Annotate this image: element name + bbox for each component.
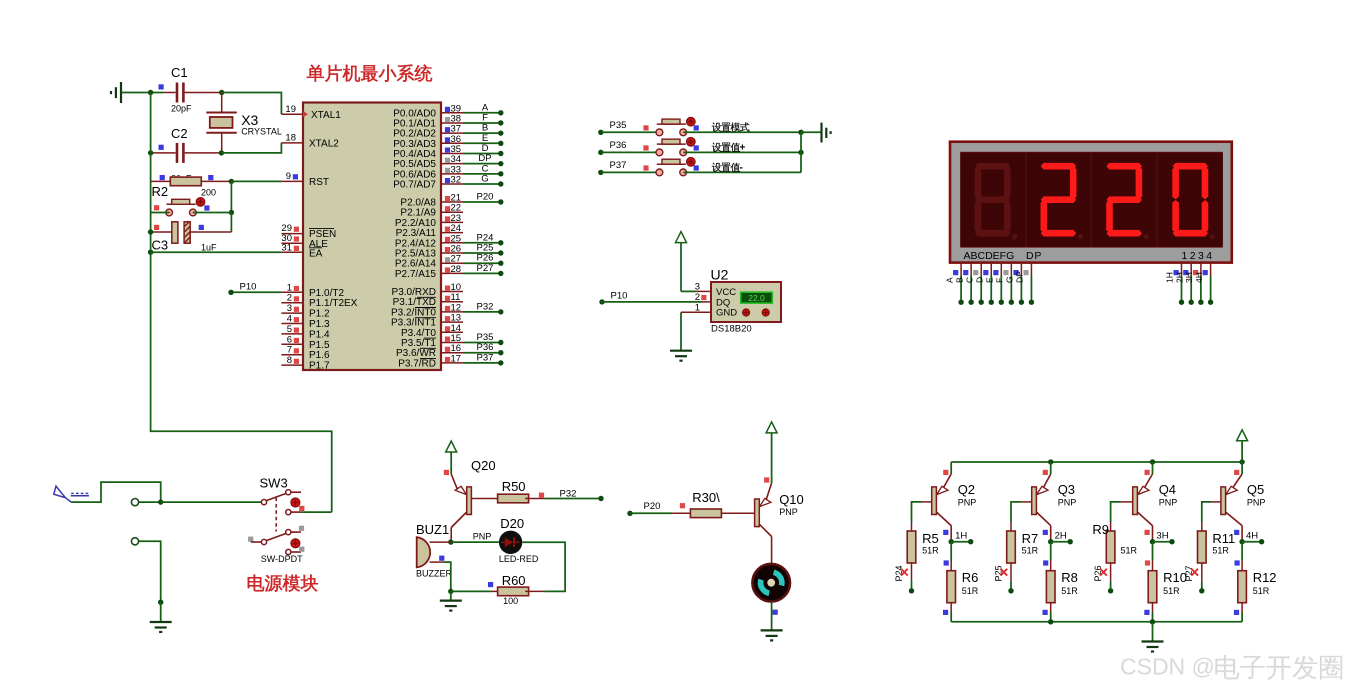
node 4H junction: [1241, 539, 1243, 542]
svg-text:U2: U2: [711, 267, 729, 283]
transistor Q5 PNP: [1241, 462, 1243, 474]
resistor R5 51R: [911, 522, 913, 531]
wire net P32: [463, 311, 501, 313]
push-button 设置值+: [657, 143, 686, 145]
pin 35 P0.4/AD4 net D: [441, 152, 463, 154]
wire R50 to P32: [544, 498, 601, 500]
svg-text:P32: P32: [560, 489, 577, 500]
node P10: [228, 290, 233, 295]
svg-text:28: 28: [451, 264, 462, 275]
svg-text:P1.3: P1.3: [309, 319, 330, 330]
svg-text:5: 5: [287, 324, 292, 335]
pin 27 P2.6/A14: [441, 262, 463, 264]
wire R7 to terminal P25: [1010, 581, 1012, 590]
svg-text:DP: DP: [1026, 250, 1042, 262]
svg-text:3H: 3H: [1156, 531, 1168, 542]
resistor R12 51R: [1241, 542, 1243, 561]
node ground junction: [158, 600, 163, 605]
svg-text:ABCDEFG: ABCDEFG: [964, 250, 1015, 262]
pin display segment DP: [1030, 263, 1032, 276]
wire C2 to XTAL2 pin18: [221, 143, 281, 153]
pin 28 P2.7/A15: [441, 272, 463, 274]
node bottom rail junction R10: [1150, 619, 1155, 624]
svg-text:XTAL2: XTAL2: [309, 139, 339, 150]
svg-text:VCC: VCC: [716, 287, 736, 298]
transistor Q4 PNP: [1152, 462, 1154, 474]
svg-text:1uF: 1uF: [201, 242, 217, 252]
node rail junction Q3: [1048, 459, 1053, 464]
wire net P25: [463, 252, 501, 254]
svg-text:P1.5: P1.5: [309, 340, 330, 351]
svg-text:C1: C1: [171, 65, 188, 80]
power arrow transistor array: [1237, 430, 1248, 441]
wire battery to terminal: [71, 482, 161, 502]
wire button to ground rail: [683, 171, 801, 173]
power arrow Q10: [766, 422, 777, 433]
svg-text:P37: P37: [477, 352, 494, 363]
svg-text:P1.0/T2: P1.0/T2: [309, 288, 344, 299]
node terminal P27: [1199, 588, 1204, 593]
label title 单片机最小系统: [307, 65, 324, 82]
pin 8 P1.7: [281, 364, 303, 366]
svg-text:P20: P20: [644, 501, 661, 512]
svg-text:E: E: [985, 277, 995, 283]
svg-text:Q5: Q5: [1247, 482, 1264, 497]
node terminal P26: [1108, 588, 1113, 593]
node C2 left junction: [148, 150, 153, 155]
wire P10 to DQ: [602, 301, 702, 303]
pin 18 XTAL2: [281, 142, 303, 144]
pin 6 P1.5: [281, 343, 303, 345]
svg-text:3H: 3H: [1184, 272, 1194, 283]
node P10 sensor terminal: [599, 299, 604, 304]
svg-text:G: G: [1005, 276, 1015, 283]
pin 11 P3.1/TXD: [441, 301, 463, 303]
svg-text:CRYSTAL: CRYSTAL: [241, 127, 282, 137]
pin 2 P1.1/T2EX: [281, 302, 303, 304]
svg-text:2H: 2H: [1055, 531, 1067, 542]
svg-text:20pF: 20pF: [171, 104, 192, 114]
pin 3 P1.2: [281, 312, 303, 314]
wire terminal2 to ground: [139, 541, 161, 604]
svg-text:9: 9: [286, 171, 291, 182]
wire base to R11: [1202, 502, 1212, 522]
svg-text:P32: P32: [477, 301, 494, 312]
pin 7 P1.6: [281, 354, 303, 356]
wire base to R5: [912, 502, 922, 522]
pin 23 P2.2/A10: [441, 221, 463, 223]
push-button 设置值-: [657, 163, 686, 165]
svg-text:P1.7: P1.7: [309, 361, 330, 372]
svg-text:22.0: 22.0: [748, 293, 765, 303]
pin 38 P0.1/AD1 net F: [441, 122, 463, 124]
pin 10 P3.0/RXD: [441, 291, 463, 293]
pin display digit 1H: [1181, 263, 1183, 276]
transistor Q10 PNP: [766, 483, 772, 502]
wire net P37: [463, 362, 501, 364]
node bottom rail junction R8: [1048, 619, 1053, 624]
transistor Q2 PNP: [950, 462, 952, 474]
node C1 left junction: [148, 90, 153, 95]
svg-text:R60: R60: [502, 573, 526, 588]
svg-text:BUZ1: BUZ1: [416, 522, 449, 537]
node buttons gnd junction 1: [798, 130, 803, 135]
svg-text:P1.1/T2EX: P1.1/T2EX: [309, 298, 358, 309]
svg-text:Q10: Q10: [779, 492, 804, 507]
svg-text:1: 1: [287, 282, 292, 293]
resistor R30: [672, 512, 690, 514]
svg-text:Q3: Q3: [1058, 482, 1075, 497]
wire GND to ground: [680, 312, 682, 350]
svg-text:RST: RST: [309, 177, 329, 188]
wire R11 to terminal P27: [1201, 581, 1203, 590]
pin 33 P0.6/AD6 net C: [441, 173, 463, 175]
svg-text:LED-RED: LED-RED: [499, 554, 539, 564]
pin display digit 3H: [1200, 263, 1202, 276]
wire net P27: [463, 272, 501, 274]
svg-text:8: 8: [287, 355, 292, 366]
svg-text:1: 1: [695, 302, 700, 313]
svg-text:-: -: [740, 163, 743, 174]
svg-text:P35: P35: [610, 120, 627, 131]
node buzzer ground junction: [448, 589, 453, 594]
battery DC source symbol: [54, 486, 66, 498]
resistor R60: [491, 590, 501, 592]
wire R2 to RST pin9: [231, 180, 281, 182]
svg-text:GND: GND: [716, 308, 737, 319]
wire rail to ground: [1152, 622, 1154, 642]
ground power module: [160, 621, 162, 623]
capacitor C1: [163, 92, 176, 94]
svg-text:C2: C2: [171, 126, 188, 141]
resistor R7 51R: [1010, 522, 1012, 531]
wire button to ground rail: [683, 131, 801, 133]
switch SW3 actuator 2: [291, 539, 300, 548]
svg-text:DQ: DQ: [716, 297, 730, 308]
ground U2: [680, 350, 682, 352]
svg-text:EA: EA: [309, 248, 323, 259]
push-button reset: [167, 203, 196, 205]
wire P20 to R30: [630, 512, 672, 514]
svg-text:PNP: PNP: [1159, 497, 1178, 507]
node RST junction: [229, 179, 234, 184]
pin 39 P0.0/AD0 net A: [441, 112, 463, 114]
svg-text:51R: 51R: [922, 546, 939, 556]
svg-text:A: A: [944, 277, 954, 283]
node 3H junction: [1152, 539, 1154, 542]
pin display segment F: [1010, 263, 1012, 276]
node SW3 feed junction: [158, 499, 163, 504]
wire P37 to button: [601, 171, 660, 173]
resistor R50: [471, 498, 501, 500]
pin 37 P0.2/AD2 net B: [441, 132, 463, 134]
svg-text:PNP: PNP: [958, 497, 977, 507]
node crystal-C2 junction: [219, 150, 224, 155]
wire 3H stub: [1153, 541, 1173, 543]
wire VCC: [681, 290, 696, 292]
digit 3 showing 2: [1107, 163, 1142, 170]
node P36 terminal: [598, 150, 603, 155]
pin 14 P3.4/T0: [441, 331, 463, 333]
svg-text:R7: R7: [1022, 531, 1039, 546]
node P35 terminal: [598, 130, 603, 135]
LED D20 LED-RED: [499, 531, 522, 554]
svg-text:2H: 2H: [1174, 272, 1184, 283]
svg-text:51R: 51R: [1061, 586, 1078, 596]
node 2H junction: [1050, 539, 1052, 542]
svg-text:51R: 51R: [1163, 586, 1180, 596]
ground (right-facing) buttons: [820, 123, 822, 143]
wire base to R7: [1011, 502, 1021, 522]
wire rail to EA pin31: [151, 251, 282, 253]
svg-text:4: 4: [287, 314, 292, 325]
wire 1H stub: [951, 541, 971, 543]
node P37 terminal: [598, 170, 603, 175]
wire net P26: [463, 262, 501, 264]
wire base to R9: [1111, 502, 1121, 522]
svg-text:P36: P36: [610, 140, 627, 151]
digit 1 (blank, dim segments): [975, 163, 1010, 170]
display 4-digit 7-segment module: [950, 142, 1232, 263]
wire R12 to bottom rail: [1241, 612, 1243, 622]
svg-text:51R: 51R: [1253, 586, 1270, 596]
wire R8 to bottom rail: [1050, 612, 1052, 622]
label 设置值-: [712, 163, 721, 172]
svg-text:6: 6: [287, 334, 292, 345]
svg-text:P20: P20: [477, 192, 494, 203]
svg-text:P0.7/AD7: P0.7/AD7: [393, 179, 436, 190]
node P32 terminal: [598, 496, 603, 501]
capacitor C2: [151, 152, 176, 154]
pin 34 P0.5/AD5 net DP: [441, 163, 463, 165]
svg-text:P27: P27: [477, 263, 494, 274]
svg-text:R11: R11: [1212, 531, 1235, 546]
wire R60 to ground node: [451, 590, 491, 592]
pin display segment D: [990, 263, 992, 276]
svg-text:P1.2: P1.2: [309, 309, 330, 320]
wire motor to ground: [771, 602, 773, 631]
svg-text:R9: R9: [1092, 522, 1109, 537]
wire buttons right rail: [800, 132, 802, 172]
svg-text:P10: P10: [240, 282, 257, 293]
wire collector bottom rail: [951, 621, 1242, 623]
resistor R2: [151, 180, 171, 182]
wire P35 to button: [601, 131, 660, 133]
svg-text:2: 2: [287, 293, 292, 304]
svg-text:7: 7: [287, 345, 292, 356]
svg-text:PNP: PNP: [1058, 497, 1077, 507]
pin 36 P0.3/AD3 net E: [441, 142, 463, 144]
pin display digit 2H: [1190, 263, 1192, 276]
node P20 terminal: [627, 511, 632, 516]
node C3 left junction: [148, 229, 153, 234]
resistor R11 51R: [1201, 522, 1203, 531]
wire net P35: [463, 342, 501, 344]
svg-text:C3: C3: [152, 238, 169, 253]
wire LED to R60: [522, 542, 565, 591]
pin display segment E: [1000, 263, 1002, 276]
wire SW3 throw to rail: [302, 511, 332, 513]
pin 12 P3.2/INT0: [441, 311, 463, 313]
svg-text:D: D: [974, 277, 984, 283]
ground (left-facing) at C1 left: [120, 82, 122, 103]
switch SW3 pole 2: [248, 537, 253, 542]
pin 17 P3.7/RD: [441, 362, 463, 364]
svg-text:3: 3: [287, 303, 292, 314]
switch SW3 actuator 1: [291, 498, 300, 507]
node rail junction Q5: [1239, 459, 1244, 464]
wire 4H stub: [1242, 541, 1262, 543]
resistor R10 51R: [1152, 542, 1154, 561]
pin 1 P1.0/T2: [281, 291, 303, 293]
svg-text:Q2: Q2: [958, 482, 975, 497]
wire R6 to bottom rail: [950, 612, 952, 622]
push-button 设置模式: [657, 123, 686, 125]
wire button to RST rail: [193, 212, 232, 214]
pin 9 RST: [281, 180, 303, 182]
label 电源模块: [248, 575, 264, 592]
pin 16 P3.6/WR: [441, 352, 463, 354]
digit 2 showing 2: [1041, 163, 1076, 170]
wire net P24: [463, 242, 501, 244]
resistor R8 51R: [1050, 542, 1052, 561]
wire button to ground rail: [683, 151, 801, 153]
svg-text:R30\: R30\: [692, 490, 720, 505]
label 设置模式: [712, 123, 721, 132]
crystal X3: [206, 112, 237, 114]
svg-text:PNP: PNP: [473, 531, 492, 541]
input terminal circle 1: [131, 499, 138, 506]
wire P36 to button: [601, 151, 660, 153]
sensor U2 DS18B20: [696, 290, 711, 292]
svg-text:Q4: Q4: [1159, 482, 1176, 497]
svg-text:Q20: Q20: [471, 458, 496, 473]
svg-text:D20: D20: [500, 516, 524, 531]
resistor R6 51R: [950, 542, 952, 561]
svg-text:BUZZER: BUZZER: [416, 569, 453, 579]
svg-text:4H: 4H: [1194, 272, 1204, 283]
svg-text:C: C: [964, 277, 974, 283]
ground transistor array: [1152, 641, 1154, 643]
svg-text:200: 200: [201, 187, 216, 197]
svg-text:51R: 51R: [1022, 546, 1039, 556]
pin 29 PSEN: [281, 233, 303, 235]
pin 4 P1.3: [281, 323, 303, 325]
pin 32 P0.7/AD7 net G: [441, 183, 463, 185]
svg-text:31: 31: [281, 242, 292, 253]
svg-text:CSDN @: CSDN @: [1120, 654, 1215, 680]
node buttons gnd junction 2: [798, 150, 803, 155]
svg-text:F: F: [995, 278, 1005, 283]
svg-text:P1.4: P1.4: [309, 329, 330, 340]
svg-text:R2: R2: [152, 184, 169, 199]
svg-text:G: G: [481, 173, 488, 184]
svg-text:51R: 51R: [1121, 546, 1138, 556]
wire net P36: [463, 352, 501, 354]
pin 30 ALE: [281, 242, 303, 244]
wire to ground: [801, 131, 822, 133]
pin 19 XTAL1: [281, 113, 303, 115]
svg-text:100: 100: [503, 596, 518, 606]
pin 15 P3.5/T1: [441, 342, 463, 344]
op-amp U1 MCU 8051 body: [303, 103, 441, 371]
node rail junction Q4: [1150, 459, 1155, 464]
pin 31 EA: [281, 251, 303, 253]
pin 13 P3.3/INT1: [441, 321, 463, 323]
svg-text:1H: 1H: [1165, 272, 1175, 283]
svg-text:R8: R8: [1061, 570, 1078, 585]
svg-text:P37: P37: [610, 160, 627, 171]
wire R10 to bottom rail: [1152, 612, 1154, 622]
svg-text:R5: R5: [922, 531, 939, 546]
transistor Q3 PNP: [1050, 462, 1052, 474]
wire R5 to terminal P24: [911, 581, 913, 590]
pin 5 P1.4: [281, 333, 303, 335]
svg-text:R12: R12: [1253, 570, 1277, 585]
svg-text:XTAL1: XTAL1: [311, 110, 341, 121]
svg-text:+: +: [740, 143, 746, 154]
svg-text:R50: R50: [502, 479, 526, 494]
pin display segment A: [960, 263, 962, 276]
ground BUZ1: [450, 591, 452, 600]
wire 2H stub: [1051, 541, 1071, 543]
svg-text:1234: 1234: [1182, 250, 1215, 262]
buzzer BUZ1: [417, 537, 430, 568]
svg-text:17: 17: [451, 353, 462, 364]
svg-text:P2.7/A15: P2.7/A15: [395, 269, 437, 280]
wire BUZ1 bottom to ground node: [444, 562, 451, 591]
pin display segment B: [970, 263, 972, 276]
node terminal P25: [1008, 588, 1013, 593]
wire to ground: [160, 602, 162, 622]
transistor Q20 PNP: [451, 474, 457, 490]
wire ground to C1: [121, 92, 163, 94]
svg-text:DP: DP: [1015, 271, 1025, 283]
wire left rail C1 to C3: [150, 93, 152, 253]
pin 22 P2.1/A9: [441, 211, 463, 213]
svg-text:32: 32: [451, 174, 462, 185]
motor M1: [752, 564, 790, 602]
power arrow U2 VCC: [676, 232, 687, 243]
capacitor C3 (polarized): [151, 231, 172, 233]
input terminal circle 2: [131, 538, 138, 545]
wire left rail to button: [151, 212, 170, 214]
svg-text:B: B: [954, 277, 964, 283]
pin display digit 4H: [1210, 263, 1212, 276]
pin 21 P2.0/A8: [441, 201, 463, 203]
wire collector node to LED: [451, 541, 499, 543]
ground motor: [771, 629, 773, 631]
svg-text:P1.6: P1.6: [309, 350, 330, 361]
svg-text:PNP: PNP: [1247, 497, 1266, 507]
wire R9 to terminal P26: [1110, 581, 1112, 590]
svg-text:PNP: PNP: [779, 507, 798, 517]
pin 24 P2.3/A11: [441, 232, 463, 234]
node 1H junction: [950, 539, 952, 542]
pin display segment G: [1020, 263, 1022, 276]
svg-text:P10: P10: [611, 290, 628, 301]
svg-text:SW3: SW3: [260, 476, 288, 491]
svg-text:P3.7/RD: P3.7/RD: [398, 358, 436, 369]
wire net P20: [463, 201, 501, 203]
wire emitter top rail: [951, 461, 1242, 463]
node EA rail junction: [148, 250, 153, 255]
wire C1 to XTAL1 pin19: [222, 93, 282, 115]
svg-text:DS18B20: DS18B20: [711, 324, 752, 335]
svg-text:51R: 51R: [962, 586, 979, 596]
pin 26 P2.5/A13: [441, 252, 463, 254]
pin display segment C: [980, 263, 982, 276]
